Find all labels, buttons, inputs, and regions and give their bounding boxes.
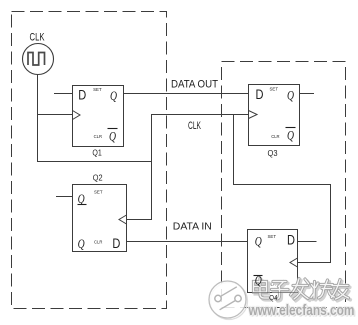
right dashed box (receiver region) (222, 62, 346, 308)
Q4 body (248, 230, 298, 293)
svg-text:www.elecfans.com: www.elecfans.com (248, 302, 355, 319)
svg-text:Q: Q (110, 88, 117, 103)
wire Q2 Qbar output stub (56, 196, 73, 198)
Q3 body (249, 85, 300, 146)
Q2 clock triangle (119, 215, 127, 224)
wire DATA IN net (Q2.D to Q4.Q) (127, 241, 249, 243)
flip-flop Q4 (mirrored) (248, 230, 298, 293)
wire CLK to Q1 clock input (37, 114, 73, 116)
svg-text:Q: Q (287, 128, 294, 143)
Q3 clock triangle (249, 111, 258, 119)
svg-text:Q: Q (287, 88, 294, 103)
wire CLK to Q2 clock input (127, 219, 153, 221)
svg-text:Q: Q (78, 191, 85, 206)
svg-text:Q2: Q2 (93, 174, 103, 183)
Q1 body (73, 86, 124, 147)
svg-text:SET: SET (268, 234, 277, 239)
svg-text:SET: SET (270, 87, 279, 92)
wire CLK branch down to Q4 clock (234, 115, 331, 263)
wire clock stem (CLK circle down) (37, 75, 39, 163)
svg-text:Q3: Q3 (268, 149, 279, 158)
svg-text:Q1: Q1 (92, 148, 102, 157)
watermark url www.elecfans.com (248, 302, 356, 321)
svg-text:Q: Q (109, 128, 116, 143)
svg-text:CLR: CLR (271, 134, 279, 139)
wire DATA OUT net (Q1.Q to Q3.D) (123, 93, 249, 95)
wire CLK vertical riser (151, 114, 153, 220)
svg-text:Q: Q (78, 236, 85, 251)
Q4 body bottom edge (faint through watermark) (248, 292, 298, 294)
svg-text:CLK: CLK (30, 32, 45, 44)
flip-flop Q2 (rotated 180) (73, 174, 127, 252)
flip-flop Q1 (73, 86, 124, 158)
svg-text:DATA OUT: DATA OUT (171, 79, 218, 91)
svg-text:Q4: Q4 (269, 293, 277, 302)
svg-text:CLR: CLR (94, 240, 102, 245)
svg-text:CLR: CLR (94, 134, 102, 139)
wire Q4.D output stub (298, 241, 317, 243)
svg-text:SET: SET (94, 189, 103, 194)
flip-flop Q3 (249, 85, 300, 159)
wire Q3.Q output stub (300, 93, 315, 95)
watermark logo (elecfans) (209, 281, 248, 320)
svg-text:SET: SET (93, 87, 102, 92)
svg-text:Q: Q (255, 234, 262, 249)
svg-text:D: D (256, 86, 264, 102)
left dashed box (transmitter region) (12, 12, 167, 309)
svg-text:D: D (112, 235, 120, 251)
wire CLK horizontal run (37, 161, 152, 163)
Q1 clock triangle (73, 111, 81, 120)
Q2 body (73, 185, 127, 252)
wire CLK to Q3 clock input (152, 114, 249, 116)
Q4 clock triangle (290, 258, 298, 267)
svg-text:CLK: CLK (188, 120, 201, 132)
svg-text:D: D (287, 232, 295, 248)
svg-text:DATA IN: DATA IN (173, 220, 212, 232)
wire D input stub of Q1 (54, 93, 73, 95)
svg-text:D: D (78, 86, 86, 102)
clock source symbol (23, 44, 54, 75)
